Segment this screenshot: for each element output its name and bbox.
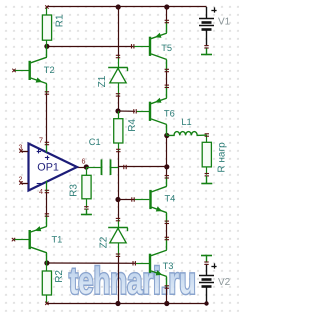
- terminal V1 minus: [201, 48, 212, 54]
- svg-text:Z1: Z1: [97, 75, 108, 87]
- zener diode Z2: [99, 218, 128, 256]
- wire top supply rail: [47, 6, 207, 8]
- svg-text:R4: R4: [127, 119, 138, 132]
- wire T2 emitter to OP1 pin7: [46, 93, 48, 144]
- wire T4 emitter to T3 collector: [166, 222, 168, 238]
- resistor R1: [42, 5, 65, 46]
- svg-text:3: 3: [19, 142, 23, 151]
- pin label 7: [39, 136, 43, 145]
- svg-text:R1: R1: [55, 14, 66, 27]
- resistor R4: [114, 111, 138, 152]
- terminal R3 ground: [81, 209, 92, 215]
- battery V2: [199, 262, 231, 306]
- junction bottom rail / T3 emitter: [164, 301, 169, 306]
- transistor T1 with base lead: [12, 215, 63, 263]
- svg-text:V1: V1: [218, 17, 231, 28]
- junction top rail / T5 collector: [164, 4, 169, 9]
- pin label 2: [19, 174, 23, 183]
- wire T3 emitter to bottom rail: [166, 287, 168, 304]
- transistor T6 with base lead: [134, 86, 175, 135]
- grid background: [0, 0, 239, 313]
- pin mark T2 emitter: [45, 92, 49, 94]
- svg-text:2: 2: [19, 174, 23, 183]
- transistor T3 with base lead: [133, 239, 173, 288]
- junction output node / C1 wire: [164, 164, 169, 169]
- pin mark T5 emitter: [165, 69, 169, 71]
- junction top rail / Z1 column: [116, 4, 121, 9]
- wire bottom rail: [47, 303, 207, 305]
- svg-text:T2: T2: [44, 65, 55, 75]
- wire T5 emitter to T6 collector: [166, 71, 168, 87]
- battery V1: [199, 7, 231, 48]
- svg-text:C1: C1: [89, 137, 101, 147]
- svg-text:6: 6: [82, 156, 86, 165]
- capacitor C1: [86, 137, 126, 175]
- transistor T2 with base lead: [12, 46, 54, 93]
- svg-text:R2: R2: [54, 270, 65, 283]
- svg-text:OP1: OP1: [37, 161, 59, 173]
- watermark tehnari.ru: [69, 261, 196, 303]
- pin mark T3 emitter: [165, 286, 169, 288]
- resistor R3: [69, 167, 92, 209]
- wire OP1 output stub: [77, 167, 86, 169]
- svg-text:7: 7: [39, 136, 43, 145]
- resistor Rload: [202, 134, 227, 176]
- wire node to T4 base: [118, 199, 134, 201]
- pin mark T1 emitter: [45, 214, 49, 216]
- svg-text:Z2: Z2: [99, 236, 110, 248]
- terminal V2 plus: [201, 255, 212, 261]
- pin mark T3 collector: [165, 237, 169, 239]
- junction Z1 / R4 / T6 base: [115, 108, 120, 113]
- pin label 6: [82, 156, 86, 165]
- pin mark T4 collector: [165, 176, 169, 178]
- wire T2 collector to T5 base: [47, 46, 134, 48]
- wire T1 collector to T3 base: [47, 262, 136, 264]
- wire output node to T4 collector: [166, 167, 168, 177]
- zener diode Z1: [97, 55, 128, 96]
- svg-text:4: 4: [39, 187, 43, 196]
- resistor R2: [42, 263, 65, 305]
- wire node to T6 base: [118, 110, 135, 112]
- svg-text:V2: V2: [218, 277, 231, 288]
- junction R4 / T4 base / Z2: [115, 197, 120, 202]
- wire C1 to output node: [118, 166, 167, 168]
- svg-text:T6: T6: [164, 108, 175, 118]
- svg-text:tehnari.ru: tehnari.ru: [69, 261, 196, 303]
- svg-text:L1: L1: [181, 117, 191, 127]
- wire OP1 pin4 to T1 emitter: [46, 192, 48, 216]
- svg-text:T5: T5: [161, 43, 172, 53]
- wire R4 bottom to T4 base node: [118, 151, 120, 200]
- junction T6 emitter / L1: [164, 133, 169, 138]
- inductor L1: [167, 117, 207, 135]
- junction OP1 output / C1 / R3: [84, 164, 89, 169]
- pin label 3: [19, 142, 23, 151]
- svg-text:R нагр: R нагр: [217, 142, 228, 173]
- wire Z1 bottom to node: [118, 95, 120, 111]
- wire Z2 bottom to ground rail: [118, 255, 120, 303]
- pin mark T6 collector: [165, 85, 169, 87]
- pin mark T4 emitter: [165, 221, 169, 223]
- pin mark T5 collector: [165, 20, 169, 22]
- svg-text:R3: R3: [69, 184, 80, 197]
- wire Z2 top feed: [118, 200, 120, 220]
- transistor T4 with base lead: [132, 177, 176, 223]
- svg-text:T1: T1: [52, 235, 63, 245]
- terminal Rload ground: [201, 176, 212, 184]
- junction bottom rail / Z2 column: [115, 301, 120, 306]
- op-amp OP1: [19, 142, 77, 192]
- svg-text:T4: T4: [165, 194, 176, 204]
- transistor T5 with base lead: [132, 22, 173, 71]
- pin label 4: [39, 187, 43, 196]
- wire T6 emitter node to output node: [166, 136, 168, 167]
- wire T5 collector drop: [166, 7, 168, 22]
- wire Z1 top feed: [118, 7, 120, 57]
- junction T1 collector / R2 top: [44, 260, 49, 265]
- junction R1 bottom / T2 collector: [44, 44, 49, 49]
- svg-text:T3: T3: [163, 261, 174, 271]
